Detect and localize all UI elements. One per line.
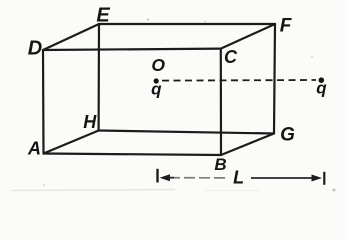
svg-text:O: O — [151, 55, 165, 75]
svg-text:q: q — [151, 80, 162, 99]
svg-text:G: G — [280, 125, 295, 146]
svg-text:A: A — [27, 139, 41, 159]
svg-text:L: L — [233, 168, 244, 188]
svg-text:F: F — [280, 16, 293, 37]
svg-text:q: q — [316, 79, 327, 98]
svg-text:E: E — [96, 4, 110, 26]
svg-text:D: D — [28, 37, 42, 59]
svg-text:H: H — [83, 112, 97, 132]
svg-text:C: C — [224, 47, 238, 67]
svg-text:B: B — [214, 155, 226, 174]
